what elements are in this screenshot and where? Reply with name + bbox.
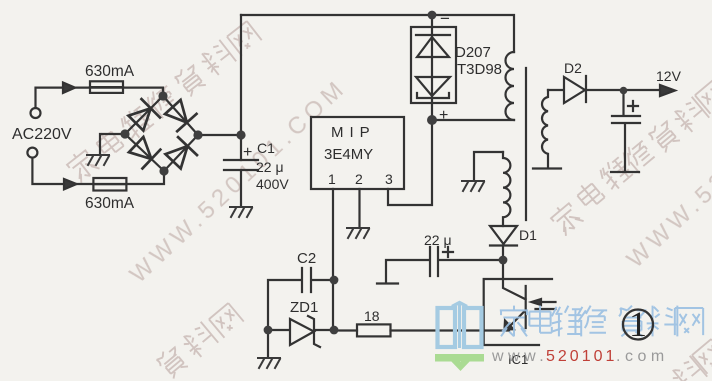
- svg-text:1: 1: [328, 171, 336, 187]
- svg-text:+: +: [243, 144, 252, 161]
- svg-text:MIP: MIP: [331, 124, 376, 141]
- svg-text:22 μ: 22 μ: [256, 159, 284, 175]
- svg-text:.com: .com: [616, 348, 669, 365]
- svg-text:D1: D1: [519, 227, 537, 243]
- svg-text:www.: www.: [491, 348, 548, 365]
- svg-text:WWW.52: WWW.52: [622, 165, 712, 273]
- svg-text:1: 1: [629, 304, 647, 344]
- svg-text:3: 3: [385, 171, 393, 187]
- svg-text:D207: D207: [455, 44, 491, 61]
- svg-text:+: +: [439, 107, 448, 124]
- svg-text:400V: 400V: [256, 176, 289, 192]
- svg-text:WWW.520101.COM: WWW.520101.COM: [125, 74, 353, 289]
- svg-text:630mA: 630mA: [85, 63, 135, 80]
- svg-text:520101: 520101: [546, 348, 617, 365]
- svg-text:C1: C1: [257, 140, 275, 156]
- svg-text:22 μ: 22 μ: [424, 232, 452, 248]
- svg-text:18: 18: [364, 308, 380, 324]
- svg-text:ZD1: ZD1: [290, 299, 318, 316]
- svg-text:T3D98: T3D98: [457, 61, 502, 78]
- svg-text:2: 2: [355, 171, 363, 187]
- svg-text:−: −: [440, 9, 450, 28]
- svg-text:3E4MY: 3E4MY: [324, 146, 373, 163]
- svg-text:12V: 12V: [656, 68, 682, 84]
- svg-text:C2: C2: [297, 250, 316, 267]
- svg-text:D2: D2: [564, 60, 582, 76]
- svg-text:630mA: 630mA: [85, 195, 135, 212]
- svg-text:AC220V: AC220V: [12, 126, 72, 143]
